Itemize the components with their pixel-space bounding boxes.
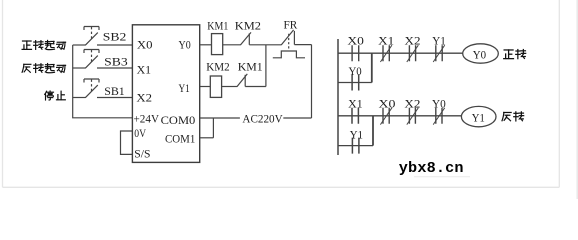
svg-text:SB3: SB3 [104, 55, 128, 69]
svg-text:SB1: SB1 [104, 84, 125, 98]
svg-text:X0: X0 [137, 38, 153, 52]
svg-text:KM1: KM1 [207, 18, 228, 32]
svg-text:X0: X0 [379, 97, 396, 111]
svg-text:KM2: KM2 [206, 60, 229, 74]
svg-text:X2: X2 [136, 91, 152, 105]
svg-text:KM2: KM2 [235, 18, 261, 32]
svg-text:COM1: COM1 [165, 131, 195, 145]
svg-text:KM1: KM1 [238, 60, 263, 74]
svg-text:X1: X1 [378, 33, 394, 47]
svg-text:+24V: +24V [134, 111, 160, 125]
svg-text:Y0: Y0 [432, 97, 446, 111]
svg-text:FR: FR [284, 18, 298, 32]
svg-text:Y0: Y0 [179, 38, 191, 52]
svg-text:X2: X2 [404, 97, 420, 111]
svg-text:Y1: Y1 [472, 110, 485, 124]
svg-text:COM0: COM0 [161, 113, 196, 127]
svg-text:Y1: Y1 [179, 81, 190, 95]
svg-text:SB2: SB2 [103, 30, 127, 44]
svg-text:AC220V: AC220V [242, 112, 283, 126]
svg-text:Y0: Y0 [349, 64, 362, 78]
svg-text:X2: X2 [405, 33, 421, 47]
svg-text:S/S: S/S [134, 147, 150, 161]
svg-text:X1: X1 [137, 62, 152, 76]
svg-text:Y0: Y0 [473, 48, 486, 62]
svg-text:0V: 0V [134, 126, 146, 140]
svg-text:Y1: Y1 [350, 127, 363, 141]
svg-text:Y1: Y1 [432, 33, 446, 47]
svg-text:X1: X1 [348, 97, 363, 111]
svg-text:X0: X0 [347, 33, 364, 47]
svg-text:ybx8.cn: ybx8.cn [399, 159, 464, 177]
